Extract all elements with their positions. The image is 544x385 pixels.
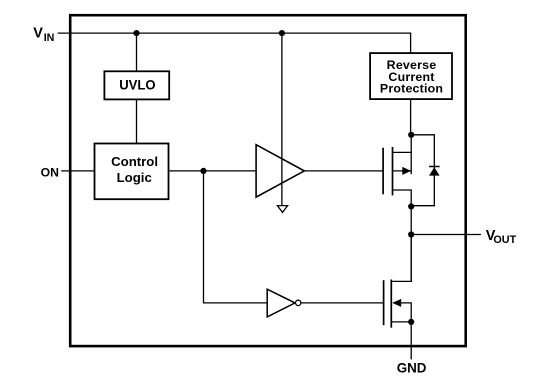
- wire branch to inverter: [204, 171, 268, 303]
- node VIN-UVLO junction: [133, 30, 139, 36]
- svg-text:Logic: Logic: [117, 170, 152, 185]
- svg-text:IN: IN: [44, 32, 55, 44]
- block UVLO: [104, 71, 169, 99]
- wire inverter to Q2 gate: [301, 302, 384, 304]
- IC boundary box: [70, 15, 466, 346]
- wire Control Logic to driver: [169, 170, 257, 172]
- wire UVLO to Control Logic: [136, 99, 138, 143]
- wire Q1 source to Q2 drain: [410, 206, 412, 281]
- node Q1 source junction: [408, 203, 414, 209]
- driver buffer U1: [256, 145, 304, 197]
- transistor Q1 (PMOS pass FET): [383, 135, 411, 207]
- svg-text:Control: Control: [111, 154, 158, 169]
- svg-text:OUT: OUT: [493, 234, 516, 246]
- svg-text:V: V: [33, 26, 43, 42]
- block Control Logic: [95, 144, 169, 200]
- wire RCP to PMOS drain node: [410, 99, 412, 135]
- transistor Q2 (NMOS discharge FET): [384, 235, 412, 328]
- wire driver to PMOS gate: [304, 170, 383, 172]
- node VIN-driver junction: [279, 30, 285, 36]
- inverter U2: [267, 289, 301, 317]
- node Q1 drain junction: [408, 132, 414, 138]
- VIN pin label: [33, 26, 54, 44]
- ground (driver): [277, 206, 287, 213]
- svg-text:ON: ON: [41, 166, 59, 180]
- svg-text:Protection: Protection: [380, 82, 443, 96]
- VOUT pin label: [486, 228, 517, 246]
- block Reverse Current Protection: [370, 53, 452, 99]
- diode D1 (body diode): [411, 135, 439, 206]
- wire VOUT: [411, 234, 481, 236]
- node driver input junction: [200, 168, 206, 174]
- wire VIN to UVLO: [136, 33, 138, 71]
- wire VIN rail: [58, 33, 411, 53]
- svg-text:GND: GND: [397, 361, 427, 376]
- wire ON input: [61, 170, 94, 172]
- svg-text:UVLO: UVLO: [119, 77, 156, 93]
- wire GND: [410, 322, 412, 360]
- wire VIN supply through driver: [281, 33, 283, 206]
- node Q2 source junction: [408, 319, 414, 325]
- node VOUT junction: [408, 231, 414, 237]
